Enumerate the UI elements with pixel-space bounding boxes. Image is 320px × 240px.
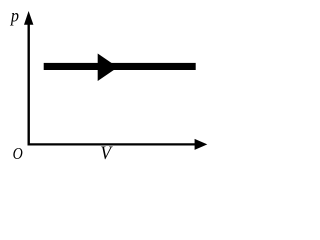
p-V diagram: [0, 0, 218, 177]
process direction arrowhead: [98, 54, 118, 82]
svg-text:p: p: [10, 6, 19, 26]
isobaric process thick bar: [44, 63, 196, 70]
svg-text:O: O: [13, 145, 23, 164]
y-axis arrowhead: [24, 11, 33, 25]
x-axis (V) shaft: [28, 143, 198, 145]
x-axis arrowhead: [195, 139, 208, 150]
y-axis (p) shaft: [28, 20, 30, 146]
svg-text:V: V: [100, 142, 112, 163]
